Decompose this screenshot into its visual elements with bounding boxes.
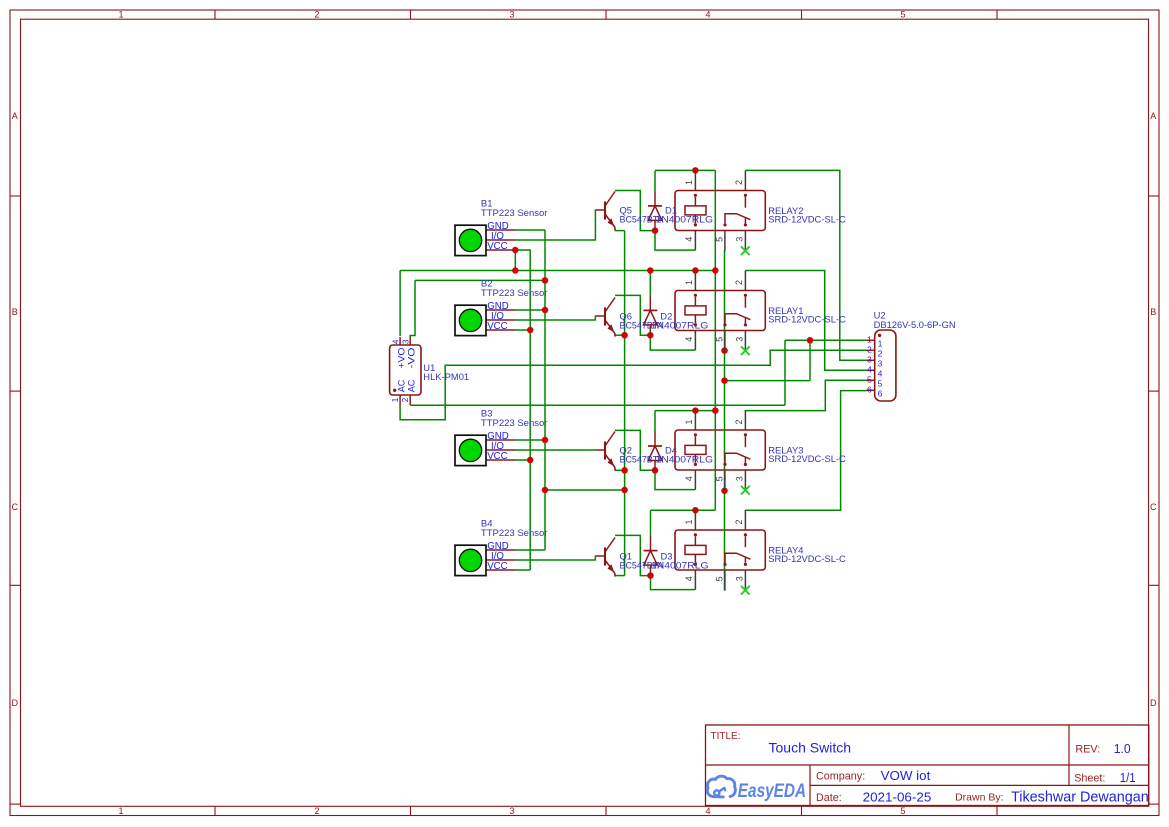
svg-text:3: 3 — [867, 355, 872, 365]
no-connect flag RELAY2 pin3 — [741, 246, 750, 255]
svg-text:1.0: 1.0 — [1114, 741, 1131, 756]
svg-text:2: 2 — [734, 180, 744, 185]
svg-text:1/1: 1/1 — [1120, 770, 1136, 785]
svg-text:3: 3 — [734, 237, 744, 242]
svg-text:TTP223 Sensor: TTP223 Sensor — [481, 528, 548, 539]
touch sensor B4 button — [459, 549, 481, 571]
transistor Q1 — [604, 547, 606, 565]
wire -VO GND bus — [415, 279, 545, 281]
svg-text:2: 2 — [734, 280, 744, 285]
relay RELAY1 coil — [694, 294, 697, 297]
wire Q2 collector — [615, 430, 655, 470]
wire B I/O to Q5 base — [516, 210, 596, 240]
svg-text:1N4007RLG: 1N4007RLG — [651, 559, 709, 570]
svg-text:VCC: VCC — [487, 561, 507, 572]
svg-text:2: 2 — [734, 419, 744, 424]
svg-text:Tikeshwar Dewangan: Tikeshwar Dewangan — [1011, 790, 1149, 806]
transistor Q2 base stub — [596, 449, 605, 451]
relay RELAY2 pin leads — [694, 171, 696, 191]
wire RELAY2 pin2 to U2 pin3 — [745, 170, 866, 360]
transistor Q5 base stub — [596, 209, 605, 211]
wire RELAY3 pin2 to U2 pin5 — [745, 380, 866, 410]
svg-text:3: 3 — [509, 10, 514, 20]
wire GND to emitters — [545, 489, 625, 491]
relay RELAY1 pin leads — [694, 271, 696, 291]
svg-text:3: 3 — [878, 359, 883, 369]
svg-text:DB126V-5.0-6P-GN: DB126V-5.0-6P-GN — [874, 319, 956, 330]
wire relay pin5 AC chain — [724, 250, 726, 590]
svg-text:SRD-12VDC-SL-C: SRD-12VDC-SL-C — [768, 553, 846, 564]
wire B I/O to Q2 base — [516, 449, 596, 451]
title block border — [706, 725, 1149, 806]
svg-text:1: 1 — [684, 280, 694, 285]
wire Q5 collector — [615, 191, 655, 231]
touch sensor B4 body — [455, 545, 486, 575]
relay RELAY4 pin leads — [694, 510, 696, 530]
diode D2 — [649, 295, 651, 310]
wire AC-L bus y405 — [410, 404, 785, 406]
svg-text:1: 1 — [867, 335, 872, 345]
wire B GND — [516, 229, 545, 231]
transistor Q6 — [604, 307, 606, 325]
svg-text:C: C — [11, 502, 18, 512]
wire D3 cathode link — [650, 510, 652, 535]
relay RELAY4 body outline — [675, 530, 765, 570]
svg-text:VCC: VCC — [487, 451, 507, 462]
svg-text:TTP223 Sensor: TTP223 Sensor — [481, 418, 548, 429]
frame zone ticks left/right — [10, 195, 21, 197]
svg-text:3: 3 — [734, 576, 744, 581]
touch sensor B3 body — [455, 435, 486, 465]
frame band bottom corner notches — [10, 803, 21, 805]
title block dividers — [706, 764, 1149, 766]
svg-text:Date:: Date: — [816, 792, 842, 804]
wire B VCC — [516, 569, 530, 571]
svg-text:SRD-12VDC-SL-C: SRD-12VDC-SL-C — [768, 453, 846, 464]
diode D4 — [654, 431, 656, 446]
svg-text:6: 6 — [878, 389, 883, 399]
svg-text:1: 1 — [118, 10, 123, 20]
svg-text:4: 4 — [705, 806, 710, 816]
power module U1 body — [390, 345, 421, 395]
relay RELAY3 coil — [694, 433, 697, 436]
wire U1 pin1 to U2 pin2 — [400, 350, 866, 420]
power module U1 pin stubs — [399, 337, 401, 345]
wire B VCC — [516, 329, 530, 331]
wire emitter chain — [624, 231, 626, 576]
svg-text:5: 5 — [715, 476, 725, 481]
transistor Q2 — [604, 441, 606, 459]
svg-text:Touch Switch: Touch Switch — [769, 740, 852, 756]
svg-text:B: B — [12, 307, 18, 317]
svg-text:AC: AC — [407, 379, 417, 392]
frame zone ticks top/bottom — [214, 10, 216, 19]
svg-text:1: 1 — [684, 519, 694, 524]
relay RELAY3 body outline — [675, 430, 765, 470]
svg-text:VCC: VCC — [487, 321, 507, 332]
connector U2 body — [875, 330, 896, 401]
svg-text:3: 3 — [734, 337, 744, 342]
svg-text:5: 5 — [715, 576, 725, 581]
no-connect flag RELAY4 pin3 — [741, 586, 750, 595]
svg-text:2: 2 — [878, 349, 883, 359]
svg-text:4: 4 — [705, 10, 710, 20]
svg-text:SRD-12VDC-SL-C: SRD-12VDC-SL-C — [768, 213, 846, 224]
diode D1 — [654, 191, 656, 206]
svg-text:2: 2 — [314, 10, 319, 20]
svg-text:4: 4 — [867, 365, 872, 375]
svg-text:-VO: -VO — [407, 348, 417, 369]
relay RELAY4 coil — [694, 533, 697, 536]
wire Q6 emitter — [615, 334, 625, 336]
transistor Q5 — [604, 201, 606, 219]
svg-text:5: 5 — [900, 10, 905, 20]
wire B VCC — [516, 459, 530, 461]
svg-text:1: 1 — [391, 397, 400, 402]
wire RELAY4 pin2 to U2 pin6 — [745, 391, 866, 511]
svg-text:4: 4 — [392, 339, 401, 344]
wire D1 cathode link — [654, 171, 656, 191]
svg-text:4: 4 — [684, 576, 694, 581]
svg-text:TTP223 Sensor: TTP223 Sensor — [481, 208, 548, 219]
wire B I/O to Q6 base — [516, 316, 596, 320]
svg-text:+VO: +VO — [396, 348, 406, 369]
touch sensor B4 pin stubs — [486, 549, 516, 551]
wire RELAY1 pin2 to U2 pin4 — [745, 271, 866, 371]
svg-text:3: 3 — [401, 339, 410, 344]
svg-text:5: 5 — [867, 375, 872, 385]
svg-text:5: 5 — [878, 379, 883, 389]
wire GND vertical chain — [544, 230, 546, 550]
wire RELAY2 pin1 rail — [655, 169, 715, 171]
wire RELAY2 pin4 to D1 anode — [655, 231, 695, 251]
touch sensor B2 button — [459, 309, 481, 331]
svg-text:5: 5 — [900, 806, 905, 816]
svg-text:4: 4 — [684, 476, 694, 481]
wire B GND — [516, 439, 545, 441]
relay RELAY1 body outline — [675, 291, 765, 331]
connector U2 pin1 marker — [878, 334, 881, 337]
svg-text:TTP223 Sensor: TTP223 Sensor — [481, 288, 548, 299]
svg-text:TITLE:: TITLE: — [711, 731, 741, 742]
transistor Q1 base stub — [596, 555, 605, 557]
svg-text:4: 4 — [878, 369, 883, 379]
wire B1 VCC to +VO bus — [514, 250, 516, 271]
wire Q5 emitter — [615, 230, 625, 232]
svg-text:AC: AC — [396, 379, 406, 392]
relay RELAY1 contact — [744, 294, 747, 297]
svg-text:4: 4 — [684, 337, 694, 342]
svg-text:2: 2 — [401, 397, 410, 402]
svg-text:A: A — [12, 111, 18, 121]
svg-text:Company:: Company: — [816, 770, 865, 782]
wire B I/O to Q1 base — [516, 556, 596, 560]
svg-text:6: 6 — [867, 385, 872, 395]
svg-text:3: 3 — [734, 476, 744, 481]
svg-text:EasyEDA: EasyEDA — [738, 781, 806, 802]
wire +VO 12V bus — [400, 270, 715, 272]
svg-text:HLK-PM01: HLK-PM01 — [423, 371, 469, 382]
wire VCC chain — [515, 250, 530, 570]
no-connect flag RELAY1 pin3 — [741, 346, 750, 355]
svg-text:2: 2 — [867, 345, 872, 355]
svg-text:1: 1 — [878, 339, 883, 349]
svg-text:C: C — [1150, 502, 1157, 512]
svg-text:B: B — [1150, 307, 1156, 317]
relay RELAY4 contact — [744, 533, 747, 536]
wire RELAY4 pin4 to D3 anode — [651, 576, 696, 590]
wire U2 pin1 net — [785, 339, 867, 341]
wire RELAY3 pin1 rail — [655, 410, 715, 412]
relay RELAY3 pin leads — [694, 410, 696, 430]
touch sensor B1 pin stubs — [486, 229, 516, 231]
wire relay coil supply bus — [714, 170, 716, 510]
power module U1 pin1 marker — [393, 389, 396, 392]
relay RELAY2 contact — [744, 194, 747, 197]
relay RELAY2 body outline — [675, 191, 765, 231]
svg-text:2: 2 — [734, 519, 744, 524]
svg-text:2021-06-25: 2021-06-25 — [863, 789, 932, 804]
wire D2 cathode link — [649, 271, 651, 296]
svg-text:REV:: REV: — [1075, 744, 1100, 756]
no-connect flag RELAY3 pin3 — [741, 486, 750, 495]
transistor Q6 base stub — [596, 315, 605, 317]
svg-text:1: 1 — [118, 806, 123, 816]
svg-text:D: D — [1150, 698, 1157, 708]
svg-text:1: 1 — [684, 180, 694, 185]
touch sensor B2 body — [455, 305, 486, 335]
svg-text:VOW iot: VOW iot — [881, 768, 931, 783]
svg-text:Drawn By:: Drawn By: — [955, 792, 1003, 804]
svg-text:Sheet:: Sheet: — [1074, 773, 1105, 785]
connector U2 pin stubs — [867, 339, 875, 341]
svg-text:SRD-12VDC-SL-C: SRD-12VDC-SL-C — [768, 313, 846, 324]
svg-text:1N4007RLG: 1N4007RLG — [651, 319, 709, 330]
wire AC-L link to U2 pin1 — [725, 380, 811, 382]
svg-text:1: 1 — [684, 419, 694, 424]
wire Q1 emitter — [615, 575, 625, 577]
wire B GND — [516, 309, 545, 311]
svg-text:5: 5 — [715, 237, 725, 242]
svg-text:3: 3 — [509, 806, 514, 816]
wire Q2 emitter — [615, 469, 625, 471]
wire Q6 collector — [615, 295, 650, 335]
svg-text:A: A — [1150, 111, 1156, 121]
svg-text:VCC: VCC — [487, 241, 507, 252]
svg-text:2: 2 — [314, 806, 319, 816]
svg-text:1N4007RLG: 1N4007RLG — [656, 213, 714, 224]
svg-text:1N4007RLG: 1N4007RLG — [656, 453, 714, 464]
wire RELAY1 pin4 to D2 anode — [650, 335, 695, 350]
relay RELAY3 contact — [744, 433, 747, 436]
EasyEDA logo cloud — [707, 776, 735, 797]
touch sensor B1 button — [459, 229, 481, 251]
wire D4 cathode link — [654, 410, 656, 431]
svg-text:5: 5 — [715, 337, 725, 342]
wire RELAY3 pin4 to D4 anode — [655, 470, 695, 489]
wire B GND — [516, 549, 545, 551]
diode D3 — [650, 536, 652, 551]
relay RELAY2 coil — [694, 194, 697, 197]
wire RELAY4 pin1 rail — [651, 509, 716, 511]
svg-text:4: 4 — [684, 237, 694, 242]
svg-text:D: D — [11, 698, 18, 708]
touch sensor B2 pin stubs — [486, 309, 516, 311]
junction dots — [692, 167, 699, 174]
touch sensor B1 body — [455, 225, 486, 255]
wire Q1 collector — [615, 535, 651, 575]
touch sensor B3 pin stubs — [486, 439, 516, 441]
touch sensor B3 button — [459, 439, 481, 461]
